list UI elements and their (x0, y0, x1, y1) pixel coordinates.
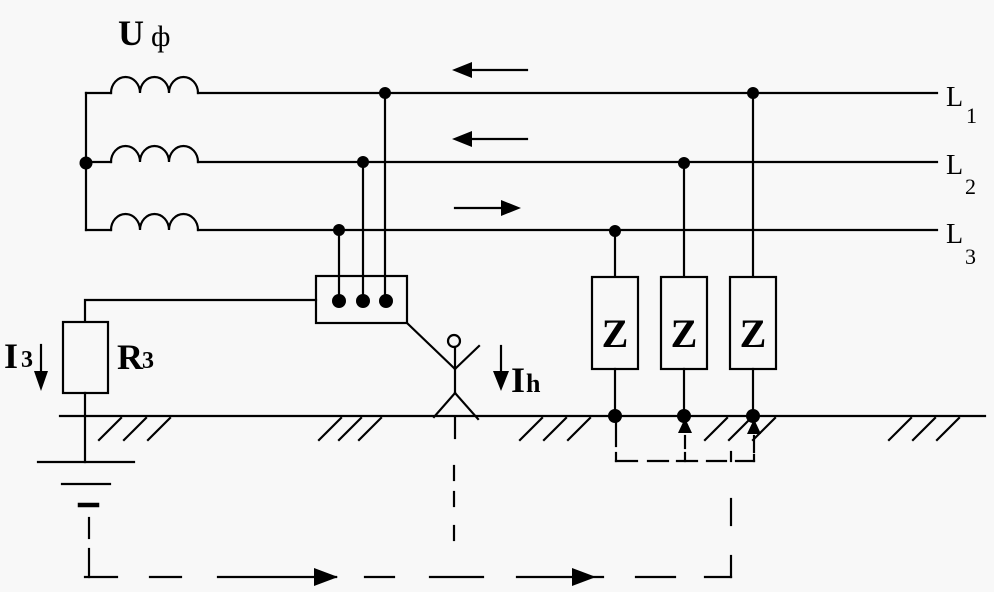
svg-text:I: I (511, 360, 525, 400)
node on L1 for load Z3 (747, 87, 759, 99)
wire left bus vertical (85, 93, 87, 230)
equipment box (316, 276, 407, 323)
wire box to person hand (407, 323, 455, 369)
node on L3 for load Z1 (609, 225, 621, 237)
current arrow on L1 (452, 62, 527, 78)
wire tap L2 to box (362, 162, 364, 298)
person left leg (434, 393, 455, 417)
label L1 (946, 82, 977, 128)
svg-text:3: 3 (142, 348, 154, 374)
wire tap L1 to box (384, 93, 386, 298)
label R3 (117, 337, 154, 377)
person ground tick (454, 417, 456, 438)
label L3 (946, 219, 976, 269)
wire L1 to Z3 (752, 93, 754, 277)
svg-text:ф: ф (151, 20, 170, 53)
label U phase voltage (118, 13, 170, 53)
dashed earth current path from electrode (88, 518, 90, 577)
wire L1 left stub (86, 92, 111, 94)
svg-text:U: U (118, 13, 144, 53)
person body (454, 347, 456, 393)
wire L3 to Z1 (614, 231, 616, 277)
terminal dot 3 in box (379, 294, 393, 308)
svg-text:R: R (117, 337, 144, 377)
earth hatching group 1 (99, 418, 170, 440)
wire L1 line (198, 92, 937, 94)
ground line (earth surface) (60, 415, 985, 417)
terminal dot 1 in box (332, 294, 346, 308)
earth current arrow 1 (314, 568, 338, 586)
wire Z3 to ground (752, 369, 754, 416)
svg-text:3: 3 (21, 347, 33, 373)
label I3 (4, 336, 33, 376)
svg-text:3: 3 (965, 244, 976, 269)
wire R3 to earth electrode (84, 393, 86, 462)
earth electrode bar 1 (38, 461, 134, 463)
wire L3 line (198, 229, 937, 231)
svg-text:I: I (4, 336, 18, 376)
wire Z1 to ground (614, 369, 616, 416)
wire L2 to Z2 (683, 163, 685, 277)
dashed riser to loads (730, 452, 732, 577)
person stick figure head (448, 335, 460, 347)
earth hatching group 5 (889, 418, 959, 440)
dashed return into Z2 with arrow (678, 418, 692, 461)
impedance Z3 (730, 277, 776, 369)
wire Z2 to ground (683, 369, 685, 416)
current arrow on L3 (455, 200, 521, 216)
node Z3 ground (746, 409, 760, 423)
inductor winding phase 3 (111, 214, 198, 230)
node neutral junction (80, 157, 93, 170)
earth hatching group 3 (520, 418, 590, 440)
label L2 (946, 150, 976, 199)
earth electrode bar 2 (62, 483, 110, 485)
current arrow on L2 (452, 131, 527, 147)
node Z1 ground (608, 409, 622, 423)
I3 current arrow (34, 345, 48, 391)
wire L2 left stub (86, 161, 111, 163)
node Z2 ground (677, 409, 691, 423)
wire L3 left stub (86, 229, 111, 231)
node on L3 for load tap (333, 224, 345, 236)
dashed earth current bottom path (85, 576, 731, 578)
dashed loop below loads vertical left (615, 422, 617, 461)
node on L1 for load tap (379, 87, 391, 99)
inductor winding phase 1 (111, 77, 198, 93)
svg-text:L: L (946, 219, 963, 250)
svg-text:Z: Z (671, 311, 698, 356)
dashed return into Z3 with arrow (747, 419, 761, 461)
resistor R3 (63, 322, 108, 393)
earth current arrow 2 (572, 568, 596, 586)
wire L2 line (198, 161, 937, 163)
node on L2 for load tap (357, 156, 369, 168)
earth electrode bar 3 (80, 503, 97, 508)
svg-text:Z: Z (740, 311, 767, 356)
inductor winding phase 2 (111, 146, 198, 162)
Ih current arrow (493, 346, 509, 391)
person right arm (455, 346, 479, 369)
terminal dot 2 in box (356, 294, 370, 308)
node on L2 for load Z2 (678, 157, 690, 169)
svg-text:2: 2 (965, 174, 976, 199)
earth hatching group 4 (705, 418, 775, 440)
wire tap L3 to box (338, 230, 340, 298)
svg-text:h: h (526, 369, 541, 398)
label Ih (511, 360, 541, 400)
impedance Z1 (592, 277, 638, 369)
dashed path under person (453, 466, 455, 540)
dashed loop below loads horizontal (616, 460, 754, 462)
person right leg (455, 393, 478, 419)
svg-text:L: L (946, 150, 963, 181)
svg-text:1: 1 (966, 103, 977, 128)
svg-text:L: L (946, 82, 963, 113)
wire box to resistor R3 (85, 300, 316, 322)
svg-text:Z: Z (602, 311, 629, 356)
earth hatching group 2 (319, 418, 381, 440)
impedance Z2 (661, 277, 707, 369)
